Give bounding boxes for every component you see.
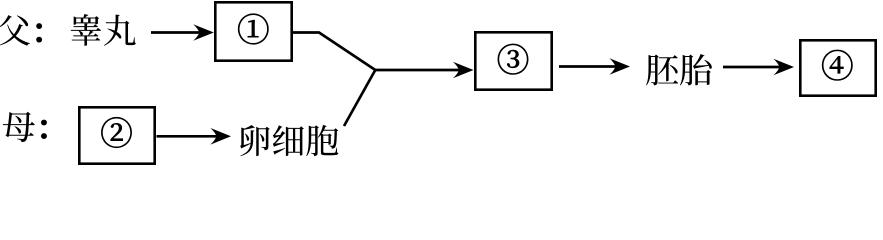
wire 卵细胞 to junction — [344, 70, 375, 126]
arrow 睾丸 to box 1 — [151, 24, 214, 41]
box 3 — [475, 32, 551, 89]
box 1 — [215, 2, 291, 60]
circled number 2 — [101, 117, 131, 148]
circled number 1 — [238, 14, 268, 45]
arrow junction to box 3 — [375, 62, 473, 79]
label 父： (father) — [0, 15, 41, 46]
label 胚胎 (embryo) — [646, 54, 712, 85]
label 睾丸 (testis) — [71, 14, 136, 46]
circled number 3 — [498, 44, 528, 75]
label 母： (mother) — [3, 112, 46, 142]
box 4 — [800, 40, 875, 95]
wire box 1 to junction — [292, 33, 375, 71]
arrow 胚胎 to box 4 — [723, 59, 794, 76]
label 卵细胞 (egg cell) — [240, 125, 338, 156]
arrow box 3 to 胚胎 — [559, 58, 630, 75]
arrow box 2 to 卵细胞 — [157, 128, 232, 145]
circled number 4 — [822, 50, 852, 81]
box 2 — [79, 107, 154, 163]
